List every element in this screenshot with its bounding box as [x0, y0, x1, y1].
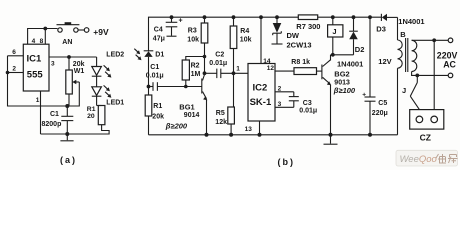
resistor R2 1M [182, 57, 204, 87]
relay contact J [410, 75, 419, 109]
svg-text:+: + [179, 18, 183, 25]
wire LED chain drop [96, 57, 98, 67]
svg-text:R2: R2 [191, 63, 200, 70]
svg-text:1: 1 [36, 97, 40, 104]
svg-text:C1: C1 [150, 64, 159, 71]
node R2 bottom junction [184, 85, 188, 89]
wire button to +9V terminal [78, 29, 84, 31]
capacitor C1 8200p [61, 106, 73, 134]
svg-text:J: J [332, 27, 336, 36]
svg-text:J: J [402, 86, 406, 95]
node D2 rail tap [352, 15, 356, 19]
node collector/J junction [331, 53, 335, 57]
svg-text:20: 20 [87, 113, 95, 120]
svg-text:R5: R5 [216, 110, 225, 117]
svg-text:9014: 9014 [184, 112, 200, 119]
svg-text:0.01μ: 0.01μ [209, 60, 227, 67]
resistor R1 20 [97, 106, 105, 125]
svg-text:WeeQoo: WeeQoo [400, 154, 437, 165]
svg-text:LED1: LED1 [106, 100, 124, 107]
svg-text:LED2: LED2 [106, 51, 124, 58]
pin 13 lead [259, 121, 261, 135]
svg-text:(b): (b) [278, 157, 296, 167]
D1 light arrows [134, 49, 141, 61]
node R4 tap [232, 15, 236, 19]
svg-text:β≥100: β≥100 [333, 86, 356, 95]
node R3 tap [203, 15, 207, 19]
svg-text:1M: 1M [191, 71, 201, 78]
resistor R1 20k (b) [145, 87, 152, 135]
transformer core [405, 38, 407, 72]
node R5 bottom [229, 133, 233, 137]
svg-text:C1: C1 [50, 111, 59, 118]
svg-text:1N4001: 1N4001 [398, 17, 424, 26]
svg-text:AN: AN [62, 39, 72, 46]
resistor R8 1k [294, 68, 317, 75]
svg-text:BG1: BG1 [179, 102, 194, 111]
node C4 tap [170, 15, 174, 19]
svg-text:0.01μ: 0.01μ [299, 108, 317, 115]
svg-text:47μ: 47μ [153, 35, 165, 42]
svg-text:D1: D1 [155, 51, 164, 58]
svg-text:0.01μ: 0.01μ [146, 72, 164, 79]
transformer secondary winding [412, 40, 418, 75]
node W1 top junction [67, 55, 71, 59]
svg-text:C3: C3 [303, 100, 312, 107]
svg-text:12: 12 [267, 65, 275, 72]
capacitor C5 220u [365, 17, 376, 135]
wire bottom rail (b) [149, 134, 398, 136]
LED1 light arrows [104, 85, 112, 97]
diode D3 1N4001 [381, 14, 397, 21]
svg-text:14: 14 [263, 58, 271, 65]
svg-text:R1: R1 [153, 103, 162, 110]
wire ground rail (a) [41, 125, 110, 134]
wire top rail (b) left segment [149, 17, 299, 51]
svg-text:D3: D3 [376, 24, 386, 33]
ground (b) [324, 135, 338, 144]
svg-text:W1: W1 [74, 68, 85, 75]
svg-text:CZ: CZ [420, 133, 431, 143]
svg-text:R3: R3 [188, 27, 197, 34]
wire left rail pins 6/2 down [8, 56, 68, 106]
node BG2 emitter [329, 133, 333, 137]
capacitor C2 0.01u [205, 69, 249, 79]
svg-text:SK-1: SK-1 [250, 97, 272, 108]
svg-text:1: 1 [236, 65, 240, 72]
resistor R3 10k [201, 17, 208, 73]
wire pin 8 riser [44, 29, 46, 45]
diode D2 1N4001 [349, 17, 358, 55]
svg-text:R7 300: R7 300 [296, 22, 320, 31]
watermark WeeQoo weiku [396, 150, 458, 166]
resistor R7 300 [298, 15, 317, 20]
node DW tap [275, 15, 279, 19]
relay J coil [328, 17, 343, 55]
svg-text:(a): (a) [60, 155, 77, 165]
node J contact tap [415, 74, 419, 78]
transformer primary winding [398, 17, 403, 134]
svg-text:AC: AC [443, 60, 456, 70]
transistor BG1 9014 [202, 75, 208, 135]
svg-text:8200p: 8200p [42, 121, 62, 128]
pin 14 lead [260, 17, 262, 63]
wire secondary top to terminal [412, 39, 449, 41]
node C1/ground junction [65, 132, 69, 136]
svg-text:R4: R4 [240, 28, 249, 35]
svg-text:2CW13: 2CW13 [287, 40, 312, 49]
svg-text:20k: 20k [152, 114, 164, 121]
capacitor C4 47u [166, 17, 178, 36]
node C5 rail tap [368, 15, 372, 19]
node R2/R3 jog junction [203, 55, 207, 59]
svg-text:IC1: IC1 [27, 54, 43, 65]
svg-text:13: 13 [245, 126, 253, 133]
capacitor C1 0.01u (b) [149, 82, 202, 91]
op-amp IC1 555 box [23, 44, 49, 91]
svg-text:DW: DW [287, 31, 300, 40]
svg-text:D2: D2 [355, 45, 365, 54]
svg-text:+: + [362, 91, 366, 98]
svg-text:10k: 10k [187, 36, 199, 43]
svg-text:IC2: IC2 [253, 83, 268, 94]
node W1/C1 junction [65, 104, 69, 108]
wire BG2 collector to D2 [331, 54, 354, 56]
svg-text:6: 6 [12, 49, 16, 56]
svg-text:2: 2 [12, 66, 16, 73]
capacitor C3 0.01u [289, 92, 299, 108]
svg-text:3: 3 [51, 60, 55, 67]
node +9V open terminal [84, 28, 89, 33]
IC2 SK-1 box [248, 64, 275, 122]
wire top rail (a) pins 4/8 to button [28, 29, 58, 45]
LED2 [92, 67, 102, 87]
node R4/R5 junction [232, 71, 236, 75]
node pin2 junction [6, 71, 10, 75]
node C1b junction on left rail [147, 85, 151, 89]
svg-text:C4: C4 [154, 27, 163, 34]
wire CZ right pin drop [433, 40, 435, 109]
wire R8 to BG2 base [317, 70, 322, 72]
photodiode D1 [144, 51, 154, 87]
LED1 [92, 87, 102, 106]
node pin14 tap [259, 15, 263, 19]
svg-text:+9V: +9V [93, 27, 109, 37]
svg-text:C5: C5 [378, 100, 387, 107]
svg-text:C2: C2 [215, 51, 224, 58]
terminal 220V top [448, 38, 453, 43]
svg-text:B: B [400, 30, 406, 39]
svg-text:R8 1k: R8 1k [291, 59, 310, 66]
potentiometer W1 20k [66, 57, 80, 106]
svg-text:β≥200: β≥200 [165, 121, 188, 130]
pushbutton AN [57, 22, 80, 32]
node pin13 bottom [258, 133, 262, 137]
node C5 bottom [368, 133, 372, 137]
LED2 light arrows [104, 65, 112, 77]
transistor BG2 9013 [322, 55, 331, 135]
resistor R4 10k [230, 17, 237, 73]
svg-text:20k: 20k [73, 61, 85, 68]
resistor R5 12k [228, 73, 235, 135]
svg-text:BG2: BG2 [334, 70, 349, 79]
node CZ right drop [432, 38, 436, 42]
node junction pins4/8 rail [43, 27, 47, 31]
ground (a) [60, 134, 73, 141]
svg-text:220μ: 220μ [372, 110, 388, 117]
svg-text:10k: 10k [240, 37, 252, 44]
node BG1 collector junction [203, 71, 207, 75]
wire top rail (b) right segment [318, 16, 382, 18]
socket CZ [410, 110, 444, 130]
terminal 220V bottom [448, 73, 453, 78]
zener DW 2CW13 [272, 17, 283, 44]
svg-text:12k: 12k [215, 119, 227, 126]
wire secondary bottom to terminal [417, 74, 448, 76]
svg-text:12V: 12V [378, 57, 391, 66]
svg-text:1N4001: 1N4001 [337, 59, 363, 68]
node relay rail tap [331, 15, 335, 19]
svg-text:555: 555 [27, 70, 44, 81]
node BG1 emitter [205, 133, 209, 137]
